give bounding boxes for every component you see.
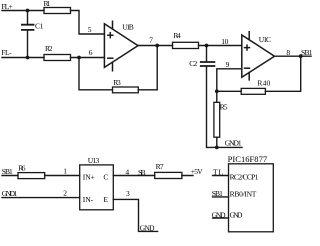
svg-text:U13: U13 [88,156,100,165]
svg-text:TI.: TI. [213,167,224,176]
svg-text:GND: GND [212,210,226,219]
svg-text:GND: GND [140,223,155,232]
svg-text:C2: C2 [189,59,197,68]
svg-text:U1B: U1B [122,23,134,32]
svg-text:R6: R6 [18,163,26,172]
svg-text:1: 1 [63,166,67,175]
svg-text:9: 9 [226,60,230,69]
svg-text:SB: SB [138,168,146,177]
svg-text:RC2/CCP1: RC2/CCP1 [230,173,259,182]
svg-text:RB0/INT: RB0/INT [230,189,257,198]
svg-text:R3: R3 [113,78,121,87]
svg-text:IN-: IN- [83,195,94,204]
svg-text:U1C: U1C [259,35,271,44]
svg-text:R40: R40 [257,79,270,88]
svg-text:R4: R4 [173,31,181,40]
svg-text:R5: R5 [220,103,228,112]
svg-text:GND: GND [230,210,243,219]
svg-text:+5V: +5V [191,167,204,176]
svg-text:SB1: SB1 [301,48,313,57]
svg-text:PIC16F877: PIC16F877 [228,154,268,164]
svg-text:C1: C1 [35,21,44,30]
svg-text:R1: R1 [44,0,51,8]
svg-text:E: E [103,195,108,204]
svg-text:5: 5 [88,25,92,34]
svg-text:R7: R7 [156,162,164,171]
svg-text:6: 6 [89,48,93,57]
svg-text:8: 8 [286,48,290,57]
svg-text:SB1: SB1 [212,189,223,198]
svg-text:3: 3 [126,189,130,198]
svg-text:2: 2 [63,188,67,197]
svg-text:C: C [103,172,108,181]
svg-text:GND1: GND1 [2,189,18,198]
svg-text:FL-: FL- [1,48,12,57]
svg-text:GND1: GND1 [225,139,242,148]
svg-text:4: 4 [125,167,129,176]
svg-text:10: 10 [221,37,228,46]
svg-text:SB1: SB1 [2,167,13,176]
svg-text:FL+: FL+ [1,2,13,11]
svg-text:IN+: IN+ [83,172,95,181]
svg-text:7: 7 [149,36,153,45]
svg-text:R2: R2 [45,44,53,53]
